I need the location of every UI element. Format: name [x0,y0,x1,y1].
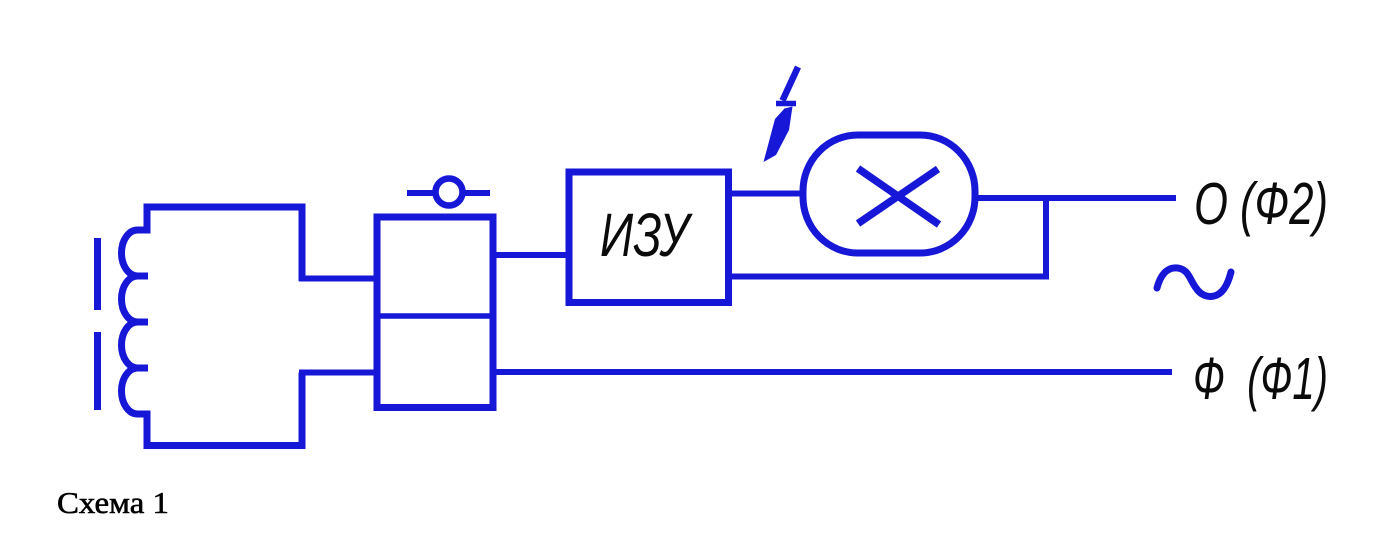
wire lamp to terminal O (F2) [975,195,1176,201]
svg-text:ИЗУ: ИЗУ [600,201,694,269]
svg-text:О (Ф2): О (Ф2) [1194,171,1328,237]
svg-text:Ф (Ф1): Ф (Ф1) [1193,346,1328,412]
lamp EL1 cross stroke 2 [858,169,938,224]
wire ignitor bottom output jumper [728,274,1049,280]
lamp socket contact symbol: right lead [463,190,491,196]
wire neutral line to terminal F (F1) [493,369,1172,375]
wire junction drop at node A [1043,198,1049,277]
terminal block X1 (two-section box) [377,217,493,408]
svg-text:Схема 1: Схема 1 [57,485,169,520]
inductor core dash 1 [94,238,101,310]
ignitor U1 box [569,172,729,303]
terminal block divider [377,313,493,319]
wire choke bottom output to terminal block [299,370,377,376]
inductor core dash 2 [94,332,101,410]
lightning arrow (high voltage pulse symbol) [764,67,799,162]
lamp EL1 (discharge lamp) envelope [803,135,975,253]
wire ignitor top output to lamp [728,191,803,197]
inductor L1 (ballast choke) body outline [122,207,303,446]
wire terminal block to ignitor [493,252,569,258]
lamp EL1 cross stroke 1 [858,169,939,225]
lamp socket contact symbol: left lead [407,190,436,196]
lamp socket contact symbol: circle [436,179,463,206]
AC sine symbol [1157,268,1231,297]
wire choke top output to terminal block [299,276,377,282]
